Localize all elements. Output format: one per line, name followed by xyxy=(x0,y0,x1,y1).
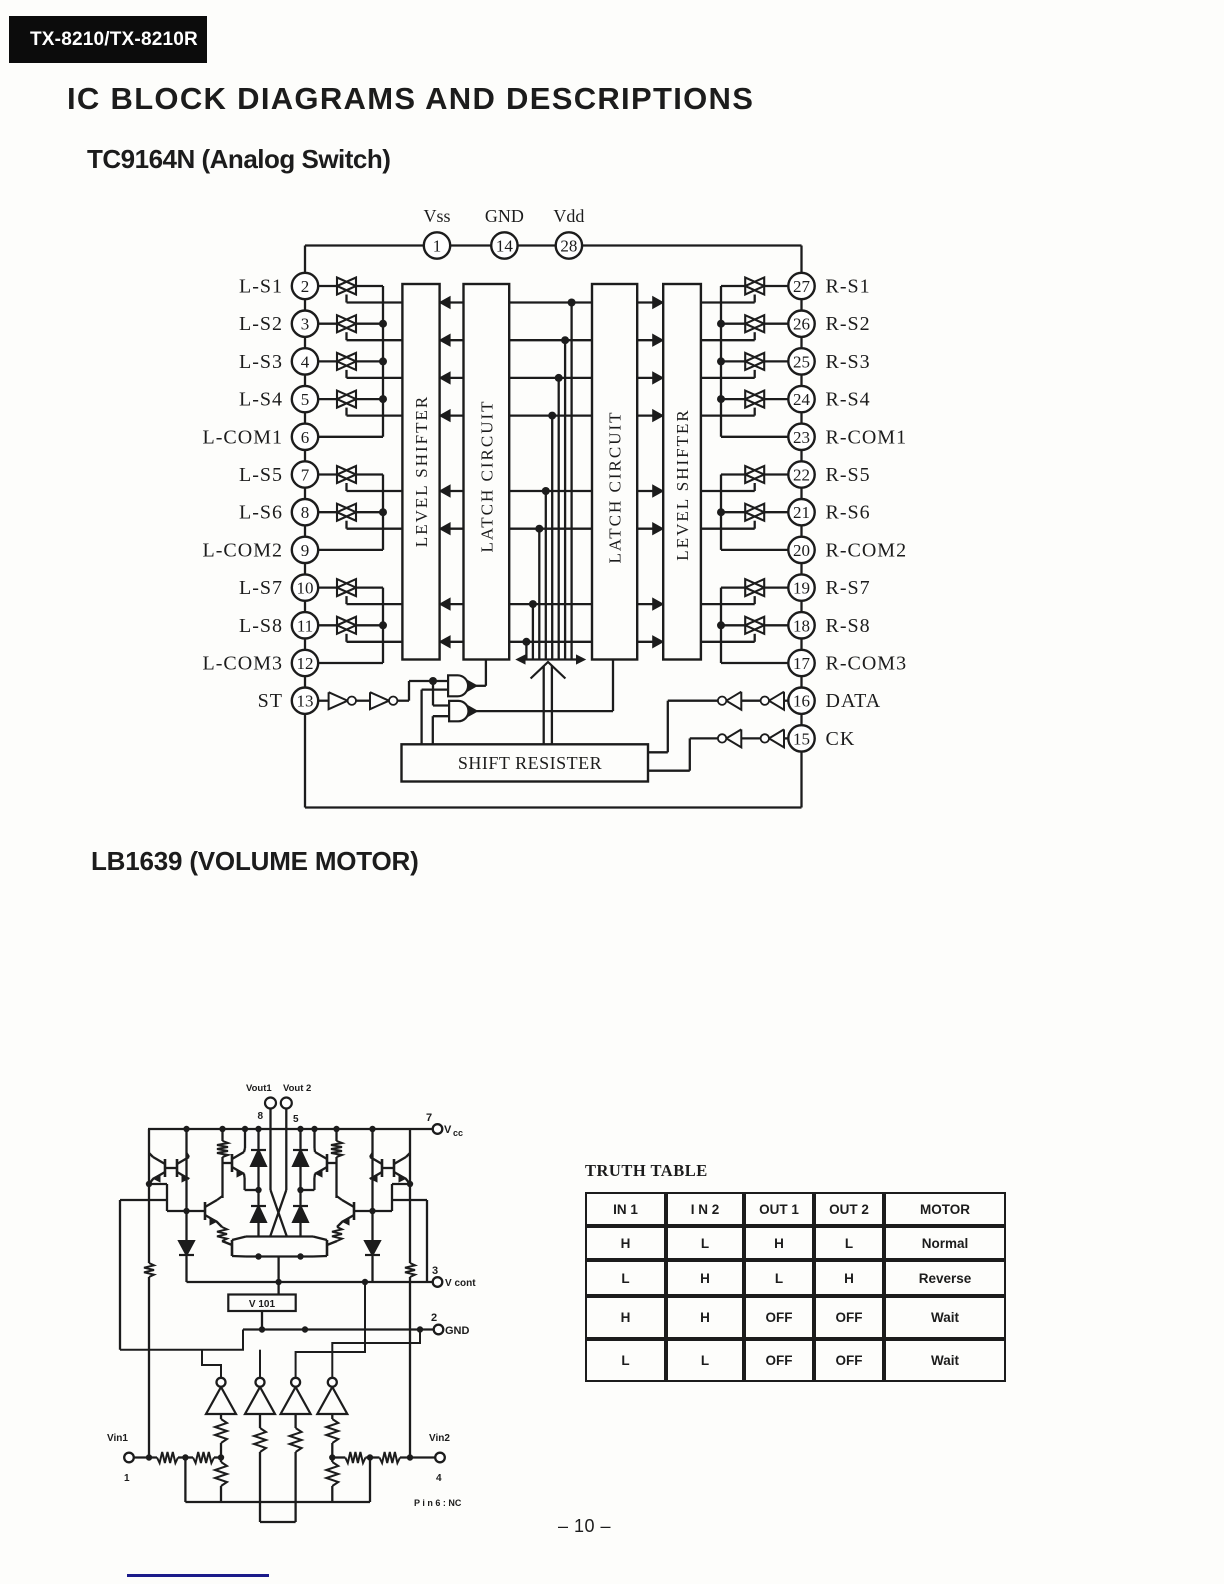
svg-text:13: 13 xyxy=(297,692,314,711)
svg-text:L-COM2: L-COM2 xyxy=(203,539,283,561)
svg-text:L-S4: L-S4 xyxy=(239,389,283,411)
svg-text:1: 1 xyxy=(124,1473,130,1484)
svg-text:R-S3: R-S3 xyxy=(826,351,871,373)
svg-text:24: 24 xyxy=(793,390,811,409)
svg-text:25: 25 xyxy=(793,352,810,371)
svg-text:10: 10 xyxy=(297,579,314,598)
svg-text:Vin1: Vin1 xyxy=(107,1433,128,1444)
svg-text:R-S6: R-S6 xyxy=(826,502,871,524)
svg-text:GND: GND xyxy=(445,1325,470,1337)
svg-text:Vout1: Vout1 xyxy=(246,1083,272,1094)
svg-text:5: 5 xyxy=(301,390,310,409)
svg-text:12: 12 xyxy=(297,654,314,673)
svg-text:2: 2 xyxy=(301,277,310,296)
svg-text:V: V xyxy=(444,1124,452,1136)
svg-text:SHIFT RESISTER: SHIFT RESISTER xyxy=(458,753,602,773)
svg-text:LEVEL SHIFTER: LEVEL SHIFTER xyxy=(412,395,431,547)
svg-text:LEVEL SHIFTER: LEVEL SHIFTER xyxy=(673,408,692,560)
svg-text:17: 17 xyxy=(793,654,811,673)
svg-text:R-S2: R-S2 xyxy=(826,313,871,335)
svg-text:21: 21 xyxy=(793,503,810,522)
svg-text:27: 27 xyxy=(793,277,811,296)
svg-text:V cont: V cont xyxy=(445,1278,476,1289)
svg-text:23: 23 xyxy=(793,428,810,447)
svg-text:ST: ST xyxy=(258,690,283,712)
svg-text:L-S6: L-S6 xyxy=(239,502,283,524)
svg-text:R-COM2: R-COM2 xyxy=(826,539,908,561)
svg-text:L-S8: L-S8 xyxy=(239,615,283,637)
svg-text:R-COM3: R-COM3 xyxy=(826,653,908,675)
svg-text:7: 7 xyxy=(426,1112,432,1124)
svg-text:22: 22 xyxy=(793,466,810,485)
svg-text:L-S2: L-S2 xyxy=(239,313,283,335)
svg-text:3: 3 xyxy=(301,315,310,334)
svg-text:8: 8 xyxy=(257,1111,263,1122)
svg-text:V 101: V 101 xyxy=(249,1299,276,1310)
svg-text:R-S1: R-S1 xyxy=(826,276,871,298)
svg-text:Vss: Vss xyxy=(423,206,450,226)
svg-text:2: 2 xyxy=(431,1312,437,1324)
svg-text:R-S8: R-S8 xyxy=(826,615,871,637)
svg-text:14: 14 xyxy=(496,237,514,256)
svg-text:L-COM1: L-COM1 xyxy=(203,426,283,448)
svg-text:L-S1: L-S1 xyxy=(239,276,283,298)
svg-text:4: 4 xyxy=(436,1473,442,1484)
svg-text:9: 9 xyxy=(301,541,310,560)
svg-text:Vdd: Vdd xyxy=(553,206,584,226)
svg-text:1: 1 xyxy=(433,237,442,256)
svg-text:CK: CK xyxy=(826,728,856,750)
svg-text:28: 28 xyxy=(560,237,577,256)
svg-text:11: 11 xyxy=(297,616,313,635)
svg-text:Vin2: Vin2 xyxy=(429,1433,450,1444)
svg-text:GND: GND xyxy=(485,206,524,226)
svg-text:20: 20 xyxy=(793,541,810,560)
svg-text:5: 5 xyxy=(293,1114,299,1125)
svg-text:4: 4 xyxy=(301,352,310,371)
svg-text:7: 7 xyxy=(301,466,310,485)
svg-text:P i n 6 : NC: P i n 6 : NC xyxy=(414,1498,462,1508)
svg-text:15: 15 xyxy=(793,729,810,748)
svg-text:L-S7: L-S7 xyxy=(239,577,283,599)
svg-text:L-COM3: L-COM3 xyxy=(203,653,283,675)
svg-text:8: 8 xyxy=(301,503,310,522)
svg-text:LATCH CIRCUIT: LATCH CIRCUIT xyxy=(606,410,625,563)
svg-text:R-COM1: R-COM1 xyxy=(826,426,908,448)
svg-text:LATCH CIRCUIT: LATCH CIRCUIT xyxy=(477,399,496,552)
svg-text:26: 26 xyxy=(793,315,810,334)
svg-text:18: 18 xyxy=(793,616,810,635)
svg-text:16: 16 xyxy=(793,692,810,711)
svg-text:19: 19 xyxy=(793,579,810,598)
svg-text:DATA: DATA xyxy=(826,690,882,712)
svg-text:L-S5: L-S5 xyxy=(239,464,283,486)
svg-text:Vout 2: Vout 2 xyxy=(283,1083,311,1094)
svg-text:6: 6 xyxy=(301,428,310,447)
svg-text:R-S7: R-S7 xyxy=(826,577,871,599)
svg-text:3: 3 xyxy=(432,1265,438,1277)
svg-text:cc: cc xyxy=(453,1128,463,1138)
svg-text:R-S4: R-S4 xyxy=(826,389,871,411)
svg-text:L-S3: L-S3 xyxy=(239,351,283,373)
svg-text:R-S5: R-S5 xyxy=(826,464,871,486)
